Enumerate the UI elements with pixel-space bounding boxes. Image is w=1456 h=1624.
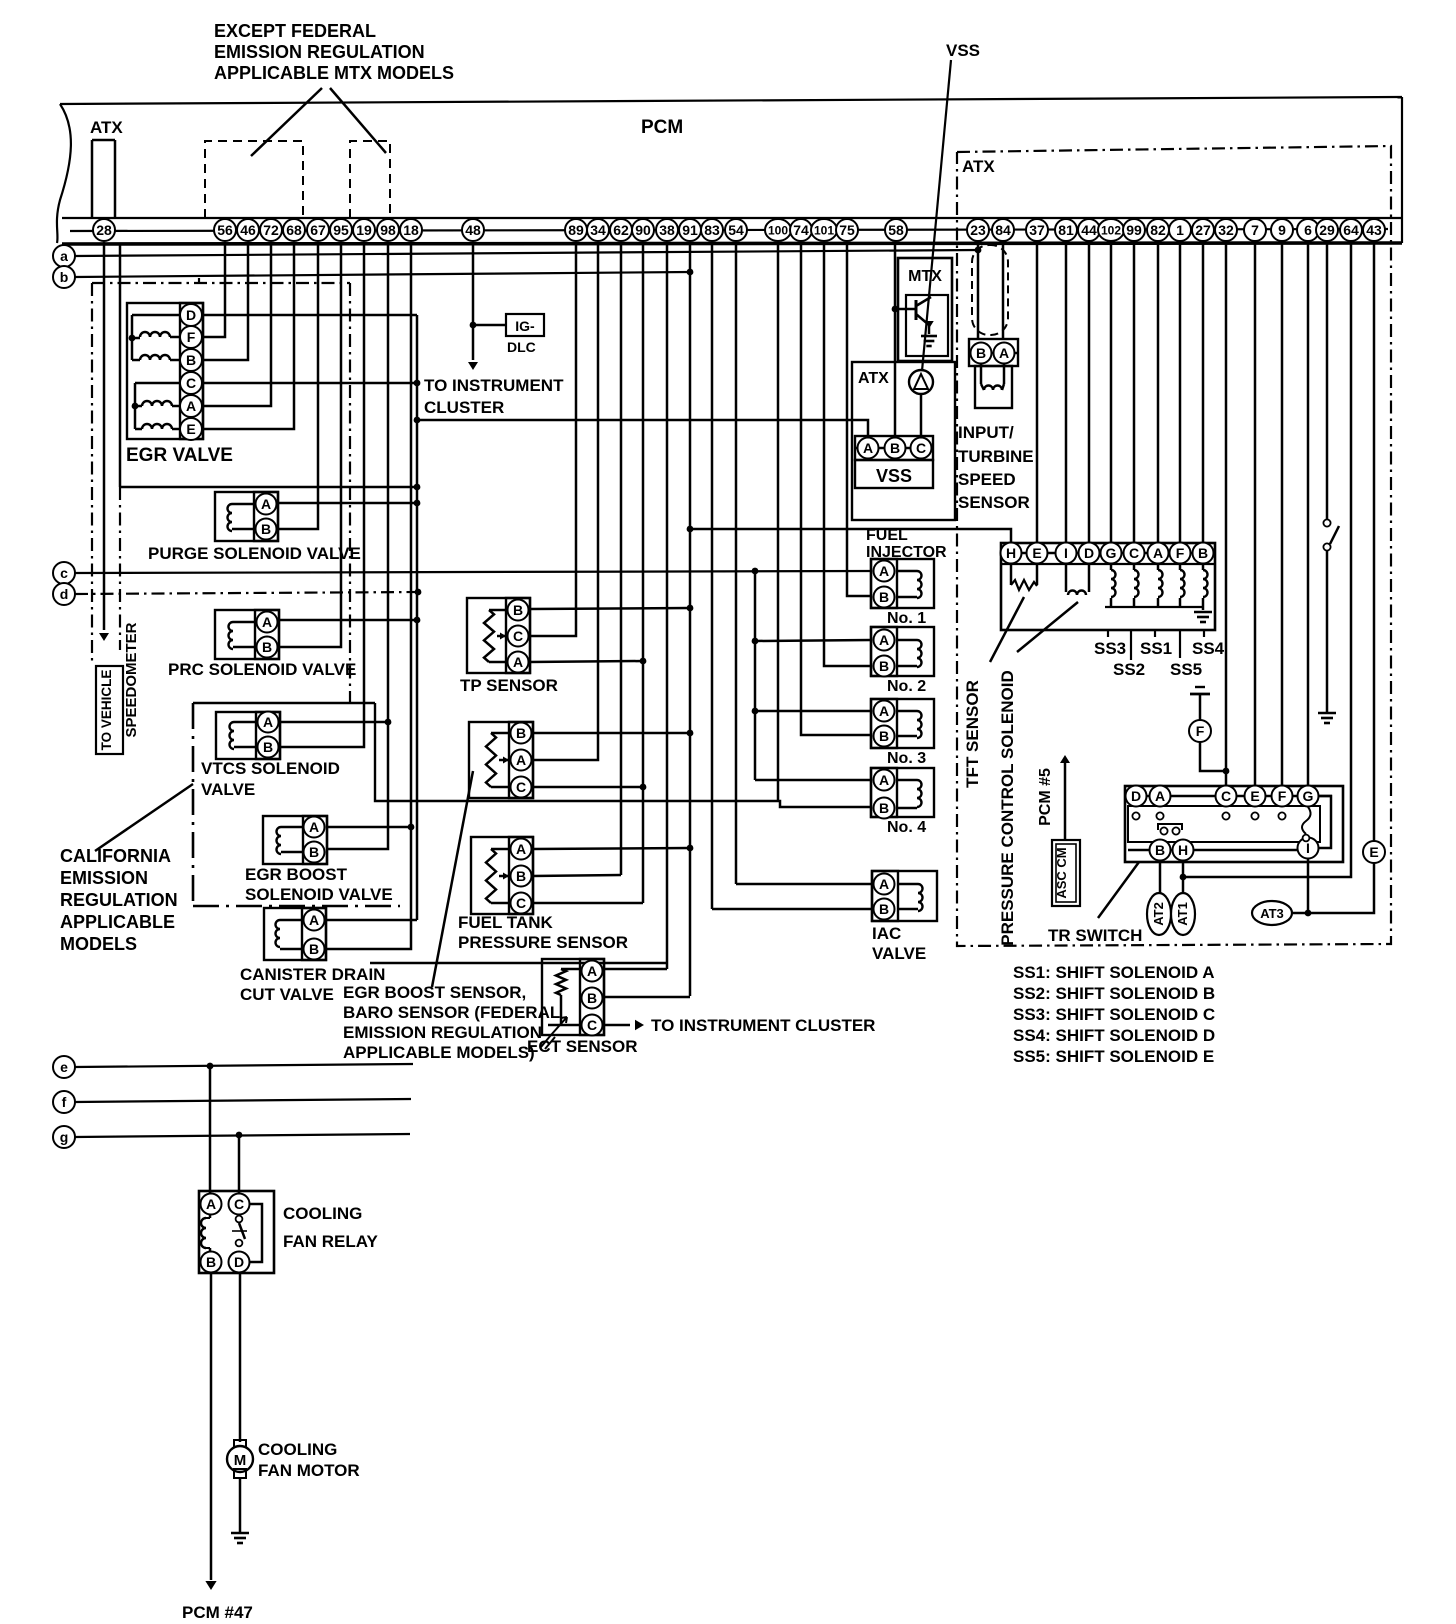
- EGR valve pin F: [180, 326, 202, 348]
- svg-text:B: B: [516, 725, 526, 741]
- svg-text:ATX: ATX: [90, 118, 123, 137]
- svg-text:EMISSION REGULATION: EMISSION REGULATION: [343, 1023, 542, 1042]
- svg-text:ATX: ATX: [962, 157, 995, 176]
- svg-text:64: 64: [1343, 222, 1359, 238]
- arrow to instrument cluster: [468, 362, 478, 370]
- shift solenoid bus: [1105, 606, 1203, 608]
- wire to IG connector: [473, 324, 506, 327]
- PCM pin 102: [1098, 219, 1124, 241]
- svg-text:23: 23: [970, 222, 986, 238]
- wire pin28 column left: [103, 242, 106, 630]
- svg-text:f: f: [62, 1094, 67, 1110]
- svg-text:I: I: [1064, 545, 1068, 561]
- TR switch pin B: [1150, 840, 1171, 861]
- PCM pin 89: [565, 219, 587, 241]
- svg-text:19: 19: [356, 222, 372, 238]
- fuel tank pressure sensor pin column: [509, 837, 533, 914]
- TR switch pin G: [1298, 786, 1319, 807]
- junction TP A on 90-wire: [640, 658, 647, 665]
- junction IG branch: [470, 322, 477, 329]
- wire FTP A to pin91 net: [532, 848, 690, 849]
- svg-text:No. 2: No. 2: [887, 678, 926, 695]
- svg-text:PRESSURE CONTROL SOLENOID: PRESSURE CONTROL SOLENOID: [998, 670, 1017, 946]
- wire EGR D to common vertical: [202, 314, 417, 317]
- wire ground to F-circle: [1199, 694, 1202, 720]
- EGR boost solenoid valve outer box: [263, 816, 327, 864]
- svg-text:D: D: [234, 1254, 244, 1270]
- wire PRC B to pin95: [278, 242, 341, 647]
- svg-text:DLC: DLC: [507, 339, 536, 355]
- PCM pin 37: [1026, 219, 1048, 241]
- junction purge A on common: [414, 500, 421, 507]
- cooling fan relay pin B: [201, 1252, 222, 1273]
- shift solenoid coil F: [1179, 564, 1182, 570]
- PCM pin 90: [632, 219, 654, 241]
- wire to injector No.2 A: [755, 640, 871, 641]
- shift solenoid connector pin row line: [1001, 552, 1215, 555]
- svg-text:B: B: [261, 521, 271, 537]
- svg-text:SS5: SHIFT SOLENOID E: SS5: SHIFT SOLENOID E: [1013, 1047, 1214, 1066]
- california boundary feeder vertical: [375, 703, 778, 801]
- wire baro C to pin90 net: [532, 786, 643, 789]
- ground for pin29 wire: [1318, 712, 1336, 715]
- EGR valve pin D: [180, 304, 202, 326]
- svg-text:A: A: [262, 614, 272, 630]
- junction injector No.2 feed: [752, 638, 759, 645]
- PCM pin 38: [656, 219, 678, 241]
- PCM pin 75: [836, 219, 858, 241]
- junction MTX base on 58-wire: [892, 306, 899, 313]
- cooling fan motor ground: [231, 1532, 249, 1535]
- junction C on common: [414, 380, 421, 387]
- svg-text:No. 3: No. 3: [887, 750, 926, 767]
- svg-text:101: 101: [814, 223, 834, 237]
- wire pin90 down to FTP C: [642, 242, 645, 903]
- svg-text:7: 7: [1251, 222, 1259, 238]
- wire PRC A to EGR common net: [278, 619, 418, 622]
- connector band upper line: [62, 217, 1402, 219]
- wire TR H to AT1: [1182, 861, 1185, 893]
- ECT sensor thermistor arrow: [551, 1017, 567, 1035]
- junction EGR boost A on 18-wire: [408, 824, 415, 831]
- svg-text:MODELS: MODELS: [60, 934, 137, 954]
- wire baro B to 91 net: [532, 732, 690, 735]
- svg-text:F: F: [1196, 723, 1205, 739]
- svg-text:CANISTER DRAIN: CANISTER DRAIN: [240, 965, 385, 984]
- fuel tank pressure sensor wiper arrow: [499, 875, 509, 878]
- corner canister A common: [416, 908, 419, 920]
- PCM pin 95: [330, 219, 352, 241]
- wire pin48 down: [472, 242, 475, 360]
- wire purge B to pin67: [277, 242, 318, 529]
- circled E node: [1363, 841, 1385, 863]
- EGR boost-baro sensor outer box: [469, 722, 533, 798]
- svg-text:6: 6: [1304, 222, 1312, 238]
- svg-text:G: G: [1106, 545, 1117, 561]
- TP sensor outer box: [467, 598, 530, 673]
- junction AT1 on 64-wire: [1180, 874, 1187, 881]
- EGR valve coil 3: [135, 405, 142, 408]
- power node ground above F-circle: [1195, 686, 1205, 688]
- svg-text:TFT SENSOR: TFT SENSOR: [963, 680, 982, 788]
- fuel injector No. 4 pin B: [874, 798, 895, 819]
- svg-text:CALIFORNIA: CALIFORNIA: [60, 846, 171, 866]
- input sensor pin A: [994, 343, 1015, 364]
- EGR boost-baro sensor potentiometer: [491, 732, 509, 735]
- svg-text:48: 48: [465, 222, 481, 238]
- PRC solenoid valve pin B: [257, 637, 278, 658]
- PCM pin 62: [610, 219, 632, 241]
- svg-text:B: B: [513, 602, 523, 618]
- svg-text:A: A: [1153, 545, 1163, 561]
- node c: [53, 562, 75, 584]
- svg-text:B: B: [1155, 842, 1165, 858]
- svg-text:APPLICABLE MTX MODELS: APPLICABLE MTX MODELS: [214, 63, 454, 83]
- svg-text:SS1: SHIFT SOLENOID A: SS1: SHIFT SOLENOID A: [1013, 963, 1215, 982]
- wire pin62 down to FTP B: [620, 242, 623, 875]
- shift connector pin A: [1148, 543, 1169, 564]
- PRC solenoid valve coil: [233, 621, 255, 624]
- cooling fan relay coil: [209, 1214, 212, 1218]
- dashed box MTX exception left: [205, 141, 303, 218]
- TR switch pin C: [1216, 786, 1237, 807]
- svg-text:C: C: [587, 1017, 597, 1033]
- wire pin74 to injector No.3 B: [801, 242, 871, 735]
- fuel tank pressure sensor pin B: [511, 866, 532, 887]
- canister drain cut valve pin A: [304, 910, 325, 931]
- svg-text:84: 84: [995, 222, 1011, 238]
- junction I on AT3 line: [1305, 910, 1312, 917]
- svg-text:A: A: [879, 632, 889, 648]
- svg-text:A: A: [587, 963, 597, 979]
- shift connector pin I: [1056, 543, 1077, 564]
- wire VTCS B to pin19: [279, 242, 364, 747]
- junction g to cooling fan relay C: [236, 1132, 243, 1139]
- VSS connector strip: [855, 436, 933, 460]
- stub SS4: [1203, 630, 1205, 637]
- svg-text:B: B: [516, 868, 526, 884]
- IAC valve pin B: [874, 899, 895, 920]
- svg-text:90: 90: [635, 222, 651, 238]
- TR switch inner box: [1128, 806, 1320, 842]
- svg-text:B: B: [879, 589, 889, 605]
- fuel injector No. 4 pin A: [874, 770, 895, 791]
- fuel injector No. 1 coil: [897, 570, 917, 573]
- wire TR I down to AT3 line: [1307, 859, 1310, 913]
- junction d to EGR common net: [415, 589, 422, 596]
- cooling fan relay pin D: [229, 1252, 250, 1273]
- TP sensor wiper arrow: [497, 635, 506, 638]
- PCM pin 64: [1340, 219, 1362, 241]
- wire pin9 down to TR F: [1281, 242, 1284, 786]
- svg-text:ASC CM: ASC CM: [1054, 847, 1069, 898]
- ATX box around VSS: [852, 362, 955, 520]
- circled F node: [1189, 720, 1211, 742]
- svg-text:AT1: AT1: [1175, 902, 1190, 926]
- shift solenoid coil A: [1157, 564, 1160, 570]
- svg-text:B: B: [206, 1254, 216, 1270]
- svg-text:B: B: [976, 345, 986, 361]
- svg-text:83: 83: [704, 222, 720, 238]
- svg-text:A: A: [879, 876, 889, 892]
- svg-text:TO INSTRUMENT CLUSTER: TO INSTRUMENT CLUSTER: [651, 1016, 875, 1035]
- wire pin98 down to EGR boost B: [327, 242, 388, 849]
- junction FTP A on 91-wire: [687, 845, 694, 852]
- PCM pin 18: [400, 219, 422, 241]
- fuel injector No. 3 pin A: [874, 701, 895, 722]
- svg-text:H: H: [1178, 842, 1188, 858]
- svg-text:B: B: [263, 739, 273, 755]
- PCM pin 6: [1297, 219, 1319, 241]
- svg-text:CUT VALVE: CUT VALVE: [240, 985, 334, 1004]
- wire f horizontal: [75, 1099, 411, 1102]
- connector band lower thick line: [62, 243, 1402, 244]
- wire F-circle to 32-wire: [1200, 742, 1226, 771]
- EGR valve pin column: [180, 303, 203, 439]
- junction TP B on 91-wire: [687, 605, 694, 612]
- wire pin29 down to test switch: [1326, 242, 1329, 519]
- svg-text:72: 72: [263, 222, 279, 238]
- shift solenoid connector box: [1001, 543, 1215, 630]
- TR switch contact: [1222, 812, 1229, 819]
- VTCS solenoid valve coil: [234, 721, 256, 724]
- PCM pin 23: [967, 219, 989, 241]
- svg-text:28: 28: [96, 222, 112, 238]
- wire FTP C to pin90: [532, 902, 643, 905]
- svg-text:89: 89: [568, 222, 584, 238]
- svg-text:32: 32: [1218, 222, 1234, 238]
- svg-text:g: g: [60, 1129, 69, 1145]
- IG-DLC box: [506, 314, 544, 336]
- svg-text:A: A: [879, 563, 889, 579]
- TR switch contact: [1156, 812, 1163, 819]
- VSS label box: [855, 460, 933, 488]
- TR switch pin D: [1126, 786, 1147, 807]
- input sensor body: [975, 366, 1012, 408]
- ASC CM box: [1052, 840, 1080, 906]
- wire g horizontal: [75, 1134, 410, 1137]
- PCM pin 74: [790, 219, 812, 241]
- EGR valve coil upper bracket: [131, 315, 134, 360]
- svg-text:27: 27: [1195, 222, 1211, 238]
- svg-text:COOLING: COOLING: [283, 1204, 362, 1223]
- junction baro B on 91-wire: [687, 730, 694, 737]
- svg-text:SS3: SHIFT SOLENOID C: SS3: SHIFT SOLENOID C: [1013, 1005, 1215, 1024]
- svg-text:9: 9: [1278, 222, 1286, 238]
- EGR boost solenoid valve pin B: [304, 842, 325, 863]
- input sensor pin row line: [969, 352, 1018, 355]
- ECT sensor strike mark: [541, 1035, 555, 1049]
- wire pin58 down to VSS B: [894, 242, 897, 437]
- pressure control solenoid coil: [1065, 564, 1068, 592]
- junction e to cooling fan relay A: [207, 1063, 214, 1070]
- svg-text:No. 4: No. 4: [887, 819, 926, 836]
- EGR valve pin D internal link: [132, 314, 181, 317]
- svg-text:98: 98: [380, 222, 396, 238]
- node b: [53, 266, 75, 288]
- svg-text:38: 38: [659, 222, 675, 238]
- TR switch pin F: [1272, 786, 1293, 807]
- EGR valve pin E: [180, 418, 202, 440]
- svg-text:VALVE: VALVE: [201, 780, 255, 799]
- svg-text:SS2: SS2: [1113, 660, 1145, 679]
- wire pin27 to connector: [1202, 242, 1205, 543]
- TR switch pin E: [1245, 786, 1266, 807]
- svg-text:67: 67: [310, 222, 326, 238]
- wire pin82 to connector: [1157, 242, 1160, 543]
- PCM pin 91: [679, 219, 701, 241]
- wire pin1 to connector: [1179, 242, 1182, 543]
- svg-text:FUEL TANK: FUEL TANK: [458, 913, 553, 932]
- california boundary top edge: [193, 702, 375, 705]
- wire EGR F to pin56: [202, 242, 225, 337]
- svg-text:VTCS SOLENOID: VTCS SOLENOID: [201, 759, 340, 778]
- EGR valve coil lower bracket: [134, 383, 137, 429]
- svg-text:F: F: [1176, 545, 1185, 561]
- PCM pin 48: [462, 219, 484, 241]
- wire sensor to VSS C: [920, 394, 923, 437]
- wire test switch to ground: [1326, 551, 1329, 712]
- purge solenoid valve outer box: [215, 492, 278, 541]
- fuel injector No. 3 coil: [897, 710, 917, 713]
- TP sensor pin column: [506, 598, 530, 673]
- shift solenoid ground: [1194, 611, 1212, 614]
- svg-text:A: A: [309, 819, 319, 835]
- EGR valve pin C internal link: [135, 382, 181, 385]
- svg-text:A: A: [879, 772, 889, 788]
- purge solenoid valve pin A: [256, 494, 277, 515]
- svg-text:BARO SENSOR (FEDERAL: BARO SENSOR (FEDERAL: [343, 1003, 560, 1022]
- svg-text:SS1: SS1: [1140, 639, 1172, 658]
- wire motor to ground: [239, 1478, 242, 1533]
- svg-text:C: C: [1221, 788, 1231, 804]
- shift connector pin B: [1193, 543, 1214, 564]
- wire FTP B to pin62: [532, 875, 621, 876]
- svg-text:d: d: [60, 586, 69, 602]
- MTX inner box: [906, 295, 948, 356]
- svg-text:M: M: [234, 1452, 247, 1469]
- svg-text:A: A: [516, 841, 526, 857]
- TP sensor potentiometer: [489, 609, 506, 612]
- fuel injector No. 1 pin B: [874, 587, 895, 608]
- wire pin23 to sensor B: [977, 242, 980, 340]
- IAC valve coil: [898, 883, 918, 886]
- svg-text:54: 54: [728, 222, 744, 238]
- EGR boost-baro sensor pin column: [509, 722, 533, 798]
- svg-text:D: D: [186, 307, 196, 323]
- PCM box top edge: [60, 97, 1402, 104]
- wire a horizontal to pin23 net: [75, 250, 978, 256]
- svg-text:102: 102: [1101, 223, 1121, 237]
- cooling fan relay switch: [236, 1216, 243, 1223]
- test switch blade: [1330, 526, 1339, 544]
- svg-text:INPUT/: INPUT/: [958, 423, 1014, 442]
- dash-dot MTX wire vertical to speedometer: [91, 283, 93, 663]
- svg-text:A: A: [516, 752, 526, 768]
- wire pin18 down to canister B: [326, 242, 411, 949]
- input sensor coil: [980, 364, 983, 384]
- PCM pin 28: [93, 219, 115, 241]
- svg-text:18: 18: [403, 222, 419, 238]
- TP sensor pin A: [508, 652, 529, 673]
- AT3 connector: [1252, 901, 1292, 925]
- svg-text:A: A: [513, 654, 523, 670]
- cooling fan motor: [227, 1446, 253, 1472]
- wire e horizontal: [75, 1064, 413, 1067]
- connector band mid line through pins: [70, 229, 1388, 231]
- svg-text:1: 1: [1176, 222, 1184, 238]
- svg-text:C: C: [1129, 545, 1139, 561]
- EGR valve pin A: [180, 395, 202, 417]
- PCM pin 54: [725, 219, 747, 241]
- svg-text:B: B: [587, 990, 597, 1006]
- svg-text:62: 62: [613, 222, 629, 238]
- svg-text:100: 100: [768, 223, 788, 237]
- svg-text:REGULATION: REGULATION: [60, 890, 178, 910]
- VSS pin B: [885, 438, 906, 459]
- PCM pin 7: [1244, 219, 1266, 241]
- wire c horizontal to injector No.1 A: [75, 571, 871, 573]
- PCM pin 27: [1192, 219, 1214, 241]
- fuel injector No. 4 box: [871, 768, 934, 817]
- wire VTCS A to pin98 net: [279, 721, 388, 724]
- svg-text:46: 46: [240, 222, 256, 238]
- wire TP B to pin91 net: [529, 608, 690, 609]
- pointer TFT sensor: [990, 597, 1024, 662]
- TR switch contact: [1132, 812, 1139, 819]
- VTCS solenoid valve pin B: [258, 737, 279, 758]
- svg-text:99: 99: [1126, 222, 1142, 238]
- pointer TR switch: [1098, 862, 1139, 918]
- dash-dot column right lower: [119, 487, 121, 650]
- shift solenoid coil B: [1202, 564, 1205, 570]
- fuel injector No. 2 pin A: [874, 630, 895, 651]
- wire canister A to common: [326, 919, 417, 922]
- wire feeder stub to injector No.4 B: [778, 801, 871, 807]
- svg-text:FAN RELAY: FAN RELAY: [283, 1232, 378, 1251]
- svg-text:IG-: IG-: [515, 318, 535, 334]
- wire pin32 down to TR C: [1225, 242, 1228, 786]
- PRC solenoid valve pin A: [257, 612, 278, 633]
- wire IAC B horizontal: [712, 908, 872, 911]
- pointer line baro sensor note: [432, 771, 473, 987]
- svg-text:58: 58: [888, 222, 904, 238]
- svg-text:A: A: [863, 440, 873, 456]
- wire TP C to pin89: [529, 242, 576, 636]
- node d: [53, 583, 75, 605]
- svg-text:SPEED: SPEED: [958, 470, 1016, 489]
- svg-text:COOLING: COOLING: [258, 1440, 337, 1459]
- svg-text:B: B: [1198, 545, 1208, 561]
- PCM pin 83: [701, 219, 723, 241]
- wire e to relay A: [209, 1066, 212, 1194]
- svg-text:A: A: [261, 496, 271, 512]
- svg-text:FUEL: FUEL: [866, 527, 908, 544]
- EGR boost solenoid valve pin A: [304, 817, 325, 838]
- wire common to VSS A: [417, 420, 868, 437]
- ECT sensor thermistor: [561, 968, 580, 971]
- wire pin99 to connector: [1133, 242, 1136, 543]
- svg-text:C: C: [513, 628, 523, 644]
- svg-text:B: B: [262, 639, 272, 655]
- svg-text:PCM #5: PCM #5: [1037, 768, 1054, 826]
- injector common feed vertical: [754, 571, 757, 780]
- svg-text:MTX: MTX: [908, 268, 942, 285]
- ATX column right line: [114, 140, 117, 218]
- wire pin75 to injector No.1 B: [847, 242, 871, 596]
- EGR boost solenoid valve pin column: [303, 816, 327, 864]
- wire EGR C to common vertical: [202, 382, 417, 385]
